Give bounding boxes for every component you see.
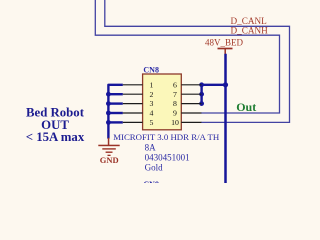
svg-text:GND: GND (100, 155, 119, 165)
power port 48V_BED bar symbol (218, 49, 233, 55)
pin 9 (181, 112, 201, 114)
pin 2 (123, 93, 143, 95)
pin 3 (123, 103, 143, 105)
svg-text:1: 1 (150, 80, 154, 89)
svg-text:4: 4 (150, 109, 154, 118)
svg-text:8: 8 (173, 99, 177, 108)
wire stub pin 5 (108, 121, 122, 123)
svg-text:Out: Out (236, 100, 256, 114)
svg-text:48V_BED: 48V_BED (205, 37, 244, 47)
ground symbol (98, 138, 119, 156)
wire vertical joining pins 1-5 and down to ground (108, 85, 122, 139)
svg-text:8A: 8A (145, 142, 157, 152)
svg-text:9: 9 (173, 109, 177, 118)
svg-text:10: 10 (171, 118, 179, 127)
wire stub pin 4 (108, 112, 122, 114)
svg-text:CN9: CN9 (143, 180, 159, 183)
pin 6 (181, 84, 201, 86)
svg-text:D_CANH: D_CANH (231, 26, 269, 36)
wire 48V_BED thick vertical bus (224, 54, 227, 183)
svg-text:6: 6 (173, 80, 177, 89)
svg-text:0430451001: 0430451001 (145, 152, 190, 162)
svg-text:< 15A max: < 15A max (26, 130, 85, 144)
pin 8 (181, 103, 201, 105)
pin 5 (123, 121, 143, 123)
wire vertical joining pins 6,7,8 (200, 85, 202, 104)
svg-text:Gold: Gold (145, 163, 164, 173)
svg-text:3: 3 (150, 99, 154, 108)
svg-text:D_CANL: D_CANL (231, 16, 268, 26)
wire D_CANL (net from top, across and down to pin 10) (105, 0, 290, 122)
wire stub pin 3 (108, 102, 122, 104)
pin 4 (123, 112, 143, 114)
wire branch pin6 to 48V bus (202, 84, 226, 86)
svg-text:7: 7 (173, 90, 177, 99)
svg-text:5: 5 (150, 118, 154, 127)
junction dot at 48V bus (223, 82, 228, 87)
pin 1 (123, 84, 143, 86)
pin 7 (181, 93, 201, 95)
svg-text:2: 2 (150, 90, 154, 99)
svg-text:MICROFIT 3.0 HDR R/A TH: MICROFIT 3.0 HDR R/A TH (113, 132, 220, 142)
wire stub pin 2 (108, 93, 122, 95)
pin numbers 6-10 (171, 80, 179, 127)
junction dots right rail (199, 82, 204, 106)
wire D_CANH (net from top, across and down to pin 9) (95, 0, 279, 113)
svg-text:CN8: CN8 (143, 65, 159, 74)
junction dots left rail (106, 92, 111, 125)
pin 10 (181, 121, 201, 123)
comment text Bed Robot OUT < 15A max (26, 106, 85, 145)
pin numbers 1-5 (150, 80, 154, 127)
connector CN8 body (143, 74, 182, 130)
